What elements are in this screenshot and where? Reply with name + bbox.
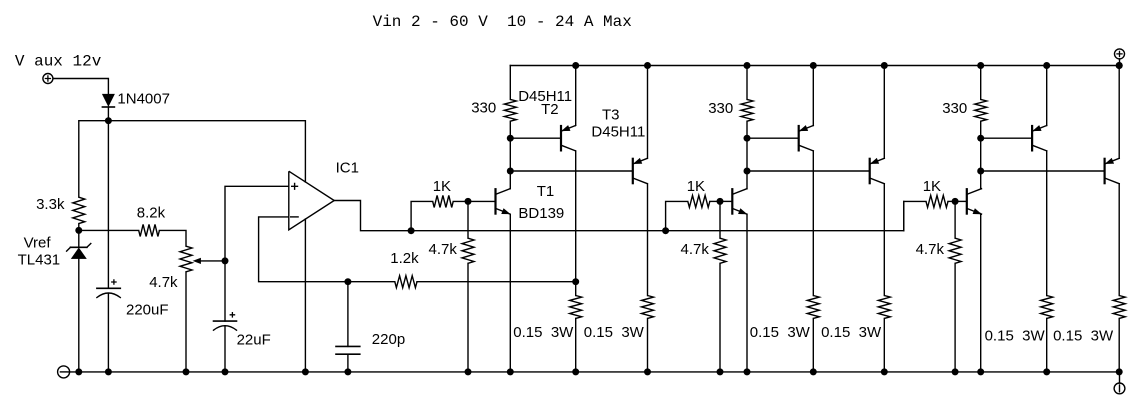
wire T1 emitter to ground rail — [509, 214, 511, 372]
node first PNP emitter rail junction (group3) — [1043, 62, 1050, 69]
svg-text:T3: T3 — [602, 107, 620, 124]
wire op-amp V- to ground rail — [304, 219, 306, 372]
wire V aux to diode — [53, 79, 108, 95]
resistor 3.3k — [73, 197, 85, 223]
wire second PNP emitter to rail (group3) — [1118, 66, 1120, 159]
resistor 4.7k (group2) — [719, 201, 721, 238]
transistor first PNP (group2) — [798, 126, 800, 150]
wire 12V to op-amp V+ — [108, 121, 305, 182]
svg-text:220p: 220p — [372, 331, 405, 348]
resistor 0.15 3W (group1 a) — [575, 282, 577, 296]
wire second PNP emitter to rail (group2) — [883, 66, 885, 159]
wire node A to 8.2k — [79, 229, 139, 231]
resistor 0.15 3W (group2 b) — [878, 296, 890, 319]
svg-text:220uF: 220uF — [126, 302, 169, 319]
svg-text:T2: T2 — [541, 101, 559, 118]
resistor 330 (group1) — [509, 66, 511, 100]
wire NPN collector to base spine (group2) — [746, 171, 748, 189]
transistor T1 BD139 — [494, 189, 496, 213]
wire second PNP collector down (group3) — [1118, 184, 1120, 296]
wire T3 collector down — [646, 184, 648, 296]
svg-text:0.15 3W: 0.15 3W — [584, 324, 645, 341]
resistor 8.2k — [139, 224, 160, 236]
wire base node to T1 — [468, 200, 496, 202]
wire 220uF to ground rail — [107, 293, 109, 372]
transistor T3 D45H11 — [632, 159, 634, 183]
wire drive riser to 1K R5 — [411, 201, 433, 230]
svg-text:0.15 3W: 0.15 3W — [985, 327, 1046, 344]
svg-text:1K: 1K — [433, 178, 451, 195]
node second PNP base junction (group3) — [977, 168, 984, 175]
wire 12V down to 220uF — [107, 121, 109, 289]
transistor NPN driver (group3) — [966, 189, 968, 213]
junction ground rail at NPN g2 emitter — [744, 368, 751, 375]
junction ground rail at 220uF — [105, 368, 112, 375]
capacitor C3 220p — [336, 346, 360, 354]
node NPN base junction (group3) — [952, 198, 959, 205]
node 330 rail junction (group2) — [744, 62, 751, 69]
junction ground rail at 4.7k g2 — [717, 368, 724, 375]
junction ground rail at 0.15 g3b — [1116, 368, 1123, 375]
junction ground rail at TL431 — [75, 368, 82, 375]
wire first PNP collector down (group2) — [812, 151, 814, 296]
wire pot to ground rail — [185, 272, 187, 372]
wire 22uF to ground rail — [224, 326, 226, 372]
svg-text:0.15 3W: 0.15 3W — [750, 324, 811, 341]
svg-text:4.7k: 4.7k — [681, 241, 710, 258]
wire T3 base — [510, 170, 633, 172]
svg-text:330: 330 — [471, 100, 496, 117]
node top rail right end junction — [1116, 62, 1123, 69]
node T3 emitter rail junction — [644, 62, 651, 69]
wire T3 emitter to top rail — [646, 66, 648, 159]
svg-text:1K: 1K — [687, 178, 705, 195]
junction ground rail at op-amp V- — [302, 368, 309, 375]
svg-text:V aux 12v: V aux 12v — [15, 53, 102, 71]
junction ground rail at pot — [183, 368, 190, 375]
wire base node to NPN (group3) — [955, 200, 967, 202]
resistor 4.7k R6 (group1) — [467, 201, 469, 238]
junction ground rail at T1 emitter — [507, 368, 514, 375]
svg-text:330: 330 — [942, 100, 967, 117]
wire base spine (group3) — [980, 138, 982, 171]
transistor second PNP (group2) — [869, 159, 871, 183]
wire sense to 220p — [347, 282, 349, 347]
svg-text:0.15 3W: 0.15 3W — [1053, 327, 1114, 344]
wire top rail (+V) — [510, 65, 1119, 67]
terminal V aux + (circle plus) — [43, 74, 53, 84]
node drive to 1K junction (group2) — [662, 227, 669, 234]
wire NPN emitter to ground rail (group2) — [746, 214, 748, 372]
wire 1.2k to sense point — [417, 281, 576, 283]
wire second PNP base (group3) — [981, 170, 1105, 172]
svg-text:BD139: BD139 — [518, 205, 564, 222]
wire op-amp - input feedback — [259, 217, 348, 282]
svg-text:0.15 3W: 0.15 3W — [821, 324, 882, 341]
node second PNP emitter rail junction (group3) — [1116, 62, 1123, 69]
node A (Vref) junction — [75, 227, 82, 234]
wire bottom rail (ground) — [68, 371, 1120, 373]
wire first PNP emitter to rail (group2) — [812, 66, 814, 126]
svg-text:T1: T1 — [537, 183, 555, 200]
node T2 emitter rail junction — [572, 62, 579, 69]
wire T2 collector to sense node — [575, 151, 577, 282]
transistor second PNP (group3) — [1103, 159, 1105, 183]
potentiometer 4.7k — [180, 246, 192, 272]
svg-text:Vin 2 - 60 V 10 - 24 A Max: Vin 2 - 60 V 10 - 24 A Max — [373, 13, 632, 31]
wire 12V to 3.3k — [79, 121, 109, 198]
wire node A to TL431 — [78, 230, 80, 247]
resistor 330 (group3) — [980, 66, 982, 100]
node 330 rail junction (group3) — [977, 62, 984, 69]
node 12V junction — [105, 117, 112, 124]
wire 1K to base node (group3) — [948, 200, 955, 202]
junction ground rail at 4.7k g3 — [952, 368, 959, 375]
svg-text:8.2k: 8.2k — [137, 204, 166, 221]
svg-text:3.3k: 3.3k — [36, 196, 65, 213]
wire T2 base — [510, 137, 561, 139]
svg-text:1N4007: 1N4007 — [117, 91, 170, 108]
svg-text:0.15 3W: 0.15 3W — [513, 324, 574, 341]
wire first PNP collector down (group3) — [1046, 151, 1048, 296]
resistor 1K (group3) — [926, 195, 948, 207]
junction ground rail at 0.15 g3a — [1043, 368, 1050, 375]
svg-text:TL431: TL431 — [18, 252, 61, 269]
wire 8.2k to pot — [159, 230, 186, 246]
resistor 0.15 3W (group3 b) — [1113, 296, 1125, 319]
svg-text:Vref: Vref — [24, 235, 52, 252]
wire T2 emitter to top rail — [575, 66, 577, 126]
resistor 4.7k (group3) — [954, 201, 956, 238]
wire NPN collector to base spine (group3) — [980, 171, 983, 189]
svg-text:22uF: 22uF — [237, 331, 271, 348]
svg-text:4.7k: 4.7k — [429, 241, 458, 258]
wire second PNP base (group2) — [747, 170, 870, 172]
wire first PNP emitter to rail (group3) — [1046, 66, 1048, 126]
node first PNP emitter rail junction (group2) — [810, 62, 817, 69]
wire base spine (group2) — [746, 138, 748, 171]
op-amp IC1 — [289, 171, 334, 230]
node first PNP base junction (group2) — [744, 135, 751, 142]
junction ground rail at 4.7k g1 — [465, 368, 472, 375]
node T3 base junction — [507, 168, 514, 175]
node pot wiper junction — [222, 257, 229, 264]
capacitor C1 220uF — [97, 287, 120, 289]
resistor 1.2k — [395, 276, 417, 288]
wire 1K to base node (group2) — [710, 200, 720, 202]
junction ground rail at 22uF — [222, 368, 229, 375]
resistor 1K R5 — [433, 195, 454, 207]
svg-text:1.2k: 1.2k — [390, 250, 419, 267]
svg-text:4.7k: 4.7k — [916, 241, 945, 258]
node second PNP emitter rail junction (group2) — [881, 62, 888, 69]
node sense junction (0.15 top) — [572, 278, 579, 285]
transistor T2 D45H11 — [560, 126, 562, 150]
svg-text:4.7k: 4.7k — [149, 274, 178, 291]
svg-text:D45H11: D45H11 — [591, 124, 645, 141]
wire wiper to op-amp + input — [225, 186, 289, 261]
node T2 base junction — [507, 135, 514, 142]
wire first PNP base (group3) — [981, 137, 1032, 139]
wire base node to NPN (group2) — [720, 200, 732, 202]
wire TL431 to ground rail — [78, 259, 80, 372]
zener TL431 Vref — [71, 246, 87, 248]
svg-text:IC1: IC1 — [336, 159, 359, 176]
capacitor C2 22uF — [214, 320, 237, 322]
terminal + output (top right) — [1115, 49, 1125, 59]
wire group1 base spine — [509, 138, 511, 171]
wire 3.3k to node A — [78, 224, 80, 231]
node NPN base junction (group2) — [717, 198, 724, 205]
junction ground rail at 0.15 g2a — [810, 368, 817, 375]
junction ground rail at NPN g3 emitter — [977, 368, 984, 375]
transistor NPN driver (group2) — [731, 189, 733, 213]
wire sense to 1.2k — [348, 281, 395, 283]
junction ground rail at 0.15 g1a — [572, 368, 579, 375]
node first PNP base junction (group3) — [977, 135, 984, 142]
wire NPN emitter to ground rail (group3) — [980, 214, 983, 372]
node drive to 1K R5 junction — [408, 227, 415, 234]
junction ground rail at 0.15 g2b — [881, 368, 888, 375]
wire T1 collector to base node — [509, 171, 511, 189]
terminal - aux (bottom left) — [58, 366, 70, 378]
resistor 1K (group2) — [688, 195, 710, 207]
resistor 0.15 3W (group3 a) — [1041, 296, 1053, 319]
junction ground rail at 0.15 g1b — [644, 368, 651, 375]
resistor 330 (group2) — [746, 66, 748, 100]
terminal output (bottom right) — [1119, 372, 1121, 383]
wire drive riser to 1K (group2) — [666, 201, 688, 230]
wire drive riser to 1K (group3) — [904, 201, 926, 230]
junction ground rail at 220p — [344, 368, 351, 375]
svg-text:330: 330 — [708, 100, 733, 117]
wire 1K R5 to T1 base node — [453, 200, 468, 202]
resistor 0.15 3W (group2 a) — [807, 296, 819, 319]
node second PNP base junction (group2) — [744, 168, 751, 175]
wire first PNP base (group2) — [747, 137, 799, 139]
wire op-amp output drive line — [334, 201, 904, 231]
wire wiper to 22uF — [224, 261, 226, 321]
diode D1 1N4007 — [102, 94, 114, 106]
wire second PNP collector down (group2) — [883, 184, 885, 296]
transistor first PNP (group3) — [1031, 126, 1033, 150]
svg-text:1K: 1K — [923, 178, 941, 195]
node T1 base junction — [465, 198, 472, 205]
wire 220p to ground rail — [347, 354, 349, 372]
node 220p junction — [344, 278, 351, 285]
resistor 0.15 3W (group1 b) — [642, 296, 654, 319]
